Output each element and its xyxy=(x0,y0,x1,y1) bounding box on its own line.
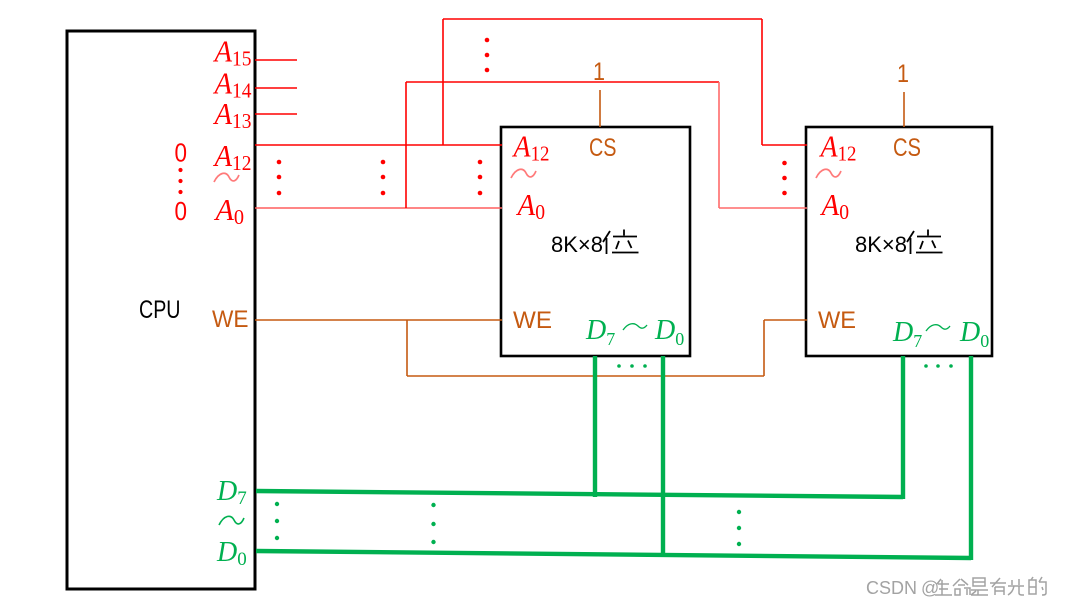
svg-text:D7: D7 xyxy=(216,476,247,509)
wire A13 stub xyxy=(255,113,297,115)
dots horizontal green under U1 xyxy=(617,364,647,368)
dots vertical red column top between A12 branch lines xyxy=(485,38,490,73)
svg-text:8K×8: 8K×8 xyxy=(855,232,907,257)
dots vertical green column 1 xyxy=(275,502,279,540)
svg-text:D0: D0 xyxy=(654,315,684,349)
svg-text:A0: A0 xyxy=(820,187,849,224)
wire WE lower horizontal xyxy=(407,375,764,377)
dots vertical green column 2 xyxy=(431,503,435,544)
wire U2 D0 vertical xyxy=(969,356,973,560)
memory chip U1 box (8K x 8) xyxy=(501,127,690,356)
dots horizontal green under U2 xyxy=(924,364,953,368)
wire WE branch down at x=407 xyxy=(406,320,408,376)
svg-text:CS: CS xyxy=(893,134,921,162)
svg-text:WE: WE xyxy=(818,307,856,334)
glyph wei U2 (CJK) xyxy=(907,230,943,255)
watermark CJK glyphs xyxy=(935,577,1046,595)
wire WE CPU to U1 xyxy=(255,319,502,321)
svg-text:1: 1 xyxy=(897,60,909,88)
svg-text:0: 0 xyxy=(175,138,188,168)
memory chip U2 box (8K x 8) xyxy=(806,127,992,356)
wire D7 data bus horizontal xyxy=(256,491,903,497)
wire CS stub U2 xyxy=(903,92,905,127)
svg-text:A0: A0 xyxy=(516,187,545,224)
dots vertical inside CPU below 0 xyxy=(178,168,182,194)
dots vertical green column 3 xyxy=(737,510,741,546)
svg-text:WE: WE xyxy=(513,307,552,334)
wire A12 vertical down at x=762 xyxy=(761,19,763,145)
wire A0 bus CPU to U1 xyxy=(255,207,502,209)
svg-text:A12: A12 xyxy=(512,129,550,166)
tilde U2 xyxy=(816,169,841,178)
tilde D bus U1 xyxy=(623,324,647,330)
dots vertical red column before U2 xyxy=(782,161,787,196)
wire WE into U2 xyxy=(764,319,807,321)
tilde between D7 and D0 CPU xyxy=(219,516,244,525)
wire A0 upper horizontal to U2 xyxy=(406,81,719,83)
wire CS stub U1 xyxy=(599,90,601,127)
tilde U1 xyxy=(511,169,536,178)
dots vertical red column 1 between CPU and U1 xyxy=(277,160,282,196)
wire D0 data bus horizontal xyxy=(256,551,971,558)
svg-text:A12: A12 xyxy=(213,138,252,175)
wire A12 top horizontal to U2 xyxy=(443,18,762,20)
svg-text:CPU: CPU xyxy=(139,296,181,324)
svg-text:D7: D7 xyxy=(585,315,615,349)
CPU box xyxy=(67,31,255,589)
svg-text:CSDN@: CSDN@ xyxy=(866,578,939,598)
tilde D bus U2 xyxy=(926,325,950,331)
wire A12 into U2 xyxy=(762,144,807,146)
svg-text:D7: D7 xyxy=(892,317,922,351)
svg-text:CS: CS xyxy=(589,134,617,162)
wire A15 stub xyxy=(255,59,297,61)
svg-text:0: 0 xyxy=(175,196,188,226)
dots vertical red column 2 between CPU and U1 xyxy=(381,160,386,196)
svg-text:A0: A0 xyxy=(214,192,244,229)
dots vertical red column 3 before U1 xyxy=(478,160,483,196)
svg-text:8K×8: 8K×8 xyxy=(551,232,603,257)
wire A14 stub xyxy=(255,87,297,89)
svg-text:WE: WE xyxy=(212,306,249,333)
wire U1 D7 vertical xyxy=(593,356,597,497)
wire A12 bus CPU to U1 xyxy=(255,144,502,146)
wire WE vertical up at x=764 xyxy=(763,320,765,376)
wire A12 branch vertical up at x=443 xyxy=(442,19,444,145)
glyph wei U1 (CJK) xyxy=(603,230,639,255)
svg-text:D0: D0 xyxy=(216,537,247,570)
svg-text:D0: D0 xyxy=(959,317,989,351)
svg-text:A12: A12 xyxy=(819,129,857,166)
wire U2 D7 vertical xyxy=(901,356,905,499)
wire U1 D0 vertical xyxy=(661,356,665,555)
svg-text:1: 1 xyxy=(593,58,605,86)
wire A0 branch vertical up at x=406 xyxy=(405,82,407,208)
wire A0 into U2 xyxy=(719,207,807,209)
wire A0 vertical down at x=719 xyxy=(718,82,720,208)
tilde between A12 and A0 CPU xyxy=(214,173,239,182)
